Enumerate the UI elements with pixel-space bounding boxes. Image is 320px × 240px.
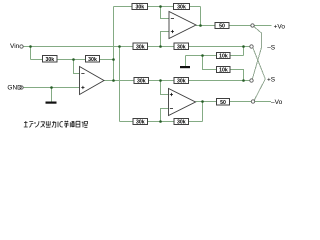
- resistor R11 50: [215, 22, 229, 28]
- resistor R10 30k: [174, 119, 189, 125]
- wire sense ground drop: [185, 56, 187, 67]
- wire row y59.3 to U1 inverting: [31, 59, 114, 61]
- wire bottom feedback row y121.6: [120, 121, 203, 123]
- wire Vin branch down x119.5 to bottom row: [119, 47, 121, 122]
- node sense divider center: [201, 54, 204, 57]
- node U2 output: [199, 24, 202, 27]
- wire +Vo terminal stub: [254, 25, 271, 27]
- op-amp U3: [169, 89, 196, 116]
- node U2 plus input: [159, 45, 162, 48]
- resistor R6 30k: [174, 43, 189, 49]
- ground symbol at sense divider: [180, 66, 190, 68]
- node GND junction: [50, 86, 53, 89]
- wire 10k R14 down to +S row: [230, 70, 244, 81]
- node Vin to lower branch: [118, 45, 121, 48]
- wire GND row y87.1: [23, 87, 80, 89]
- svg-text:GND: GND: [7, 85, 22, 92]
- node U3 plus input: [159, 79, 162, 82]
- svg-text:30k: 30k: [45, 57, 54, 63]
- resistor R4 30k: [174, 3, 190, 9]
- resistor R2 30k: [85, 56, 99, 62]
- resistor R1 30k: [42, 56, 57, 62]
- resistor R7 30k: [134, 77, 149, 83]
- wire U3 output row y101.6: [196, 101, 252, 103]
- svg-text:+S: +S: [267, 77, 276, 84]
- svg-text:10k: 10k: [219, 68, 228, 74]
- resistor R12 50: [217, 99, 230, 105]
- terminal Vin: [20, 45, 23, 48]
- svg-text:50: 50: [220, 100, 226, 106]
- wire top feedback row y6.5: [114, 6, 201, 8]
- svg-text:30k: 30k: [136, 44, 145, 50]
- terminal +S: [250, 79, 253, 82]
- terminal +Vo: [251, 24, 254, 27]
- node Vin junction: [29, 45, 32, 48]
- resistor R5 30k: [133, 43, 148, 49]
- svg-text:30k: 30k: [177, 5, 186, 11]
- wire 10k R14 feed row y70: [203, 56, 217, 70]
- resistor R9 30k: [133, 119, 148, 125]
- svg-text:+Vo: +Vo: [274, 24, 286, 31]
- wire U2 non-inverting input: [161, 32, 170, 47]
- resistor R14 10k: [217, 67, 230, 73]
- wire sense divider mid row y55.6: [186, 55, 244, 57]
- node +S sense junction: [242, 79, 245, 82]
- node U1 summing: [72, 58, 75, 61]
- wire vertical U1out to top row x113.4: [113, 7, 115, 81]
- wire bottom feedback drop x202.7: [202, 102, 204, 122]
- node U3 summing: [159, 120, 162, 123]
- svg-text:Vin: Vin: [10, 43, 20, 50]
- svg-text:30k: 30k: [137, 79, 146, 85]
- op-amp U1: [80, 67, 105, 95]
- svg-text:30k: 30k: [177, 79, 186, 85]
- node U1 output: [112, 79, 115, 82]
- wire U3 non-inverting input: [161, 81, 169, 95]
- wire top feedback drop x200.7: [200, 7, 202, 26]
- switch arm +S to +Vo: [252, 27, 261, 80]
- svg-text:10k: 10k: [219, 54, 228, 60]
- caption balanced output IC equivalent circuit: [24, 121, 88, 128]
- wire Vin row y46.3: [23, 46, 250, 48]
- wire -Vo terminal stub: [255, 101, 272, 103]
- resistor R8 30k: [174, 77, 189, 83]
- wire 10k R13 up to -S row: [243, 47, 245, 56]
- node U1 feedback: [112, 58, 115, 61]
- wire Vin branch down x30.5: [30, 47, 32, 60]
- terminal -S: [250, 45, 253, 48]
- node U2 summing: [159, 5, 162, 8]
- switch arm -S to -Vo: [253, 48, 265, 100]
- wire U2 inverting input: [161, 7, 170, 19]
- wire U1 inverting input: [74, 60, 80, 74]
- terminal -Vo: [251, 100, 254, 103]
- node -S sense junction: [242, 45, 245, 48]
- node U3 output: [201, 100, 204, 103]
- svg-text:–S: –S: [267, 44, 276, 51]
- svg-text:30k: 30k: [136, 120, 145, 126]
- svg-text:30k: 30k: [88, 57, 97, 63]
- wire U3 inverting input: [161, 109, 169, 122]
- svg-text:30k: 30k: [177, 44, 186, 50]
- terminal GND: [20, 86, 23, 89]
- svg-text:–Vo: –Vo: [271, 99, 283, 106]
- svg-text:30k: 30k: [177, 120, 186, 126]
- op-amp U2: [169, 12, 196, 39]
- wire U2 output row y25.4: [196, 25, 251, 27]
- resistor R13 10k: [217, 53, 230, 59]
- svg-text:30k: 30k: [135, 5, 144, 11]
- ground symbol at GND input: [46, 102, 57, 104]
- resistor R3 30k: [132, 3, 148, 9]
- wire GND drop to ground: [51, 88, 53, 102]
- wire U1 output row y80.6: [104, 80, 250, 82]
- svg-text:50: 50: [219, 24, 225, 30]
